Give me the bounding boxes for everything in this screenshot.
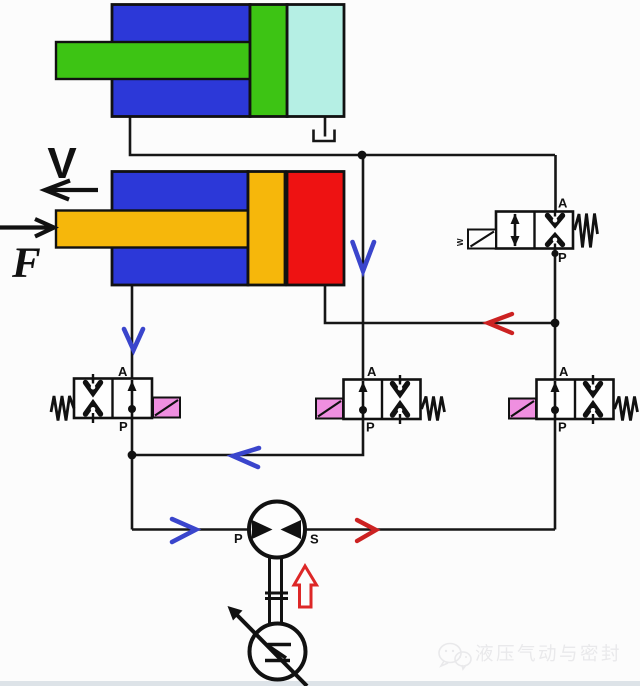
svg-text:F: F [11,240,41,287]
svg-text:P: P [366,420,375,435]
svg-text:液压气动与密封: 液压气动与密封 [475,643,622,664]
svg-text:P: P [234,531,243,546]
svg-text:A: A [559,364,569,379]
svg-text:P: P [558,250,567,265]
svg-text:A: A [367,364,377,379]
svg-text:A: A [558,196,568,211]
svg-text:W: W [456,238,465,246]
svg-text:V: V [47,139,77,188]
svg-text:P: P [119,419,128,434]
svg-text:S: S [310,532,319,547]
svg-text:P: P [558,420,567,435]
svg-text:A: A [118,364,128,379]
